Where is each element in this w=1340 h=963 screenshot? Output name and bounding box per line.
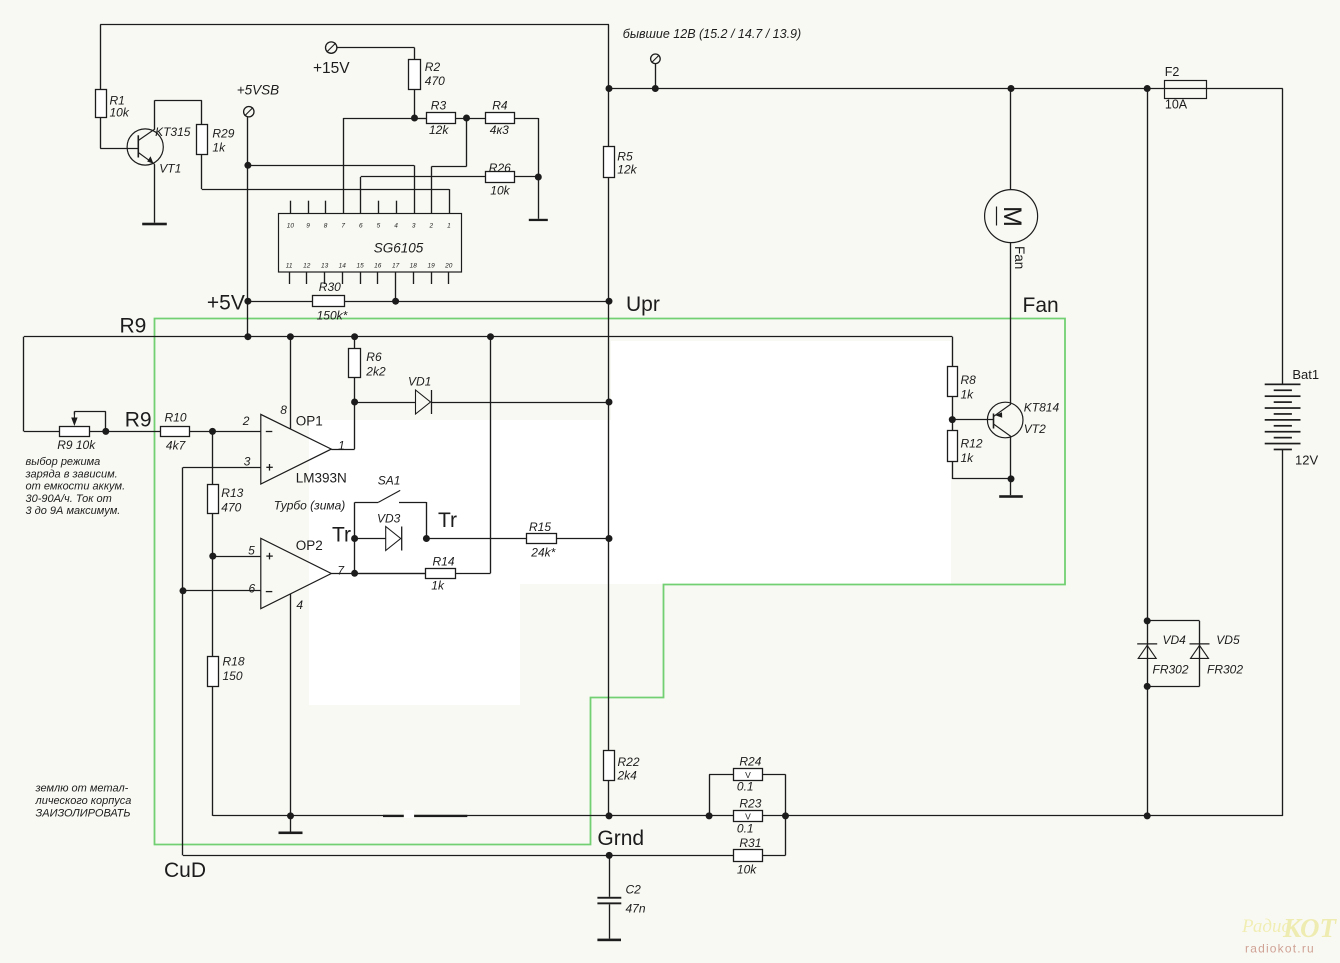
wire +5V rail right bbox=[345, 301, 610, 303]
node OP2 out junction bbox=[351, 570, 358, 577]
svg-text:VD1: VD1 bbox=[408, 375, 431, 389]
svg-text:10k: 10k bbox=[110, 106, 130, 120]
wire +15V to R2 bbox=[337, 48, 415, 60]
white patch below OP1 bbox=[309, 584, 520, 705]
wire C2 top lead bbox=[609, 855, 611, 896]
watermark radiokot bbox=[1241, 913, 1338, 956]
wire VT1 emitter bbox=[154, 165, 156, 223]
svg-text:14: 14 bbox=[339, 263, 347, 270]
ground C2 bbox=[597, 904, 621, 941]
node R15 Upr junction bbox=[606, 535, 613, 542]
label Fan vertical bbox=[1012, 246, 1027, 269]
svg-text:1: 1 bbox=[447, 223, 451, 230]
wire VD1 row left bbox=[355, 402, 416, 404]
svg-text:470: 470 bbox=[425, 74, 445, 88]
resistor R2 bbox=[409, 60, 421, 90]
svg-text:R29: R29 bbox=[212, 127, 234, 141]
node VD4 bottom junction bbox=[1144, 683, 1151, 690]
svg-text:12V: 12V bbox=[1295, 453, 1318, 468]
label R12 bbox=[961, 437, 983, 466]
svg-text:от емкости аккум.: от емкости аккум. bbox=[26, 481, 126, 493]
wire pot to R10 bbox=[89, 431, 160, 433]
terminal former 12V bbox=[651, 54, 661, 64]
label Fan bbox=[1023, 294, 1059, 317]
label Turbo bbox=[274, 499, 346, 513]
label pin3 bbox=[244, 454, 251, 468]
node ground R22 bbox=[606, 812, 613, 819]
IC top pin numbers bbox=[287, 223, 451, 230]
label CuD bbox=[164, 859, 206, 882]
node +5VSB junction bbox=[244, 162, 251, 169]
wire rail5 row bbox=[24, 336, 952, 338]
wire OP2 out bbox=[331, 573, 425, 575]
wire +5VSB down bbox=[247, 117, 249, 165]
node VT2 base junction bbox=[949, 416, 956, 423]
label R2 bbox=[425, 60, 445, 88]
node rail5 R14 bbox=[487, 333, 494, 340]
svg-text:KT814: KT814 bbox=[1024, 401, 1060, 415]
svg-text:Grnd: Grnd bbox=[597, 827, 644, 850]
svg-text:+15V: +15V bbox=[313, 60, 350, 77]
label pin6 bbox=[249, 581, 256, 595]
wire +5VSB to +5V rail bbox=[247, 165, 249, 336]
label R22 bbox=[617, 755, 640, 783]
svg-text:FR302: FR302 bbox=[1207, 663, 1243, 677]
wire R18 bottom lead bbox=[212, 686, 214, 816]
wire OP2 minus bbox=[183, 590, 261, 592]
wire R3-R4 bbox=[455, 118, 485, 120]
white patch right of OP1 bbox=[309, 420, 611, 584]
node rail5 pin8 bbox=[287, 333, 294, 340]
svg-text:F2: F2 bbox=[1165, 65, 1180, 79]
label former 12V bbox=[623, 27, 801, 41]
svg-text:9: 9 bbox=[306, 223, 310, 230]
svg-text:4: 4 bbox=[296, 598, 303, 612]
svg-text:+5V: +5V bbox=[207, 292, 245, 315]
wire main 12V rail bbox=[609, 88, 1165, 90]
svg-text:0.1: 0.1 bbox=[737, 780, 754, 794]
resistor R30 bbox=[313, 296, 345, 307]
wire Upr rail top bbox=[608, 25, 610, 147]
svg-text:12k: 12k bbox=[429, 123, 449, 137]
node +5V junction bbox=[244, 298, 251, 305]
svg-text:5: 5 bbox=[377, 223, 381, 230]
resistor R15 bbox=[527, 534, 557, 544]
svg-text:15: 15 bbox=[356, 263, 364, 270]
label 12V bbox=[1295, 453, 1318, 468]
label pin4 bbox=[296, 598, 303, 612]
node ground pin4 bbox=[287, 812, 294, 819]
svg-text:VT2: VT2 bbox=[1024, 422, 1046, 436]
svg-text:выбор режима: выбор режима bbox=[26, 456, 101, 468]
svg-text:150k*: 150k* bbox=[317, 309, 348, 323]
label Bat1 bbox=[1292, 367, 1319, 382]
wire R10 to OP1 bbox=[190, 431, 261, 433]
diode VD3 bbox=[386, 527, 402, 551]
svg-text:R14: R14 bbox=[433, 555, 455, 569]
wire OP1 plus bbox=[183, 467, 261, 469]
diode VD4 bbox=[1137, 644, 1157, 659]
wire pin4 drop bbox=[290, 594, 292, 816]
node pin17 junction bbox=[392, 298, 399, 305]
svg-text:1: 1 bbox=[338, 438, 345, 452]
wire R29 to pin1 bbox=[202, 155, 450, 214]
svg-text:R22: R22 bbox=[618, 755, 640, 769]
svg-text:2k2: 2k2 bbox=[365, 365, 386, 379]
svg-text:3: 3 bbox=[244, 454, 251, 468]
node ground R24 left bbox=[706, 812, 713, 819]
svg-text:4k7: 4k7 bbox=[166, 439, 187, 453]
svg-text:R23: R23 bbox=[739, 797, 761, 811]
resistor R26 bbox=[486, 172, 515, 183]
svg-text:КОТ: КОТ bbox=[1282, 913, 1338, 943]
node ground F2 rail bbox=[1144, 812, 1151, 819]
wire R3 left to pin7 bbox=[343, 118, 414, 214]
wire F2 rail lower bbox=[1147, 686, 1149, 816]
resistor R14 bbox=[426, 569, 456, 579]
svg-text:R26: R26 bbox=[489, 161, 511, 175]
label R4 bbox=[490, 99, 509, 138]
svg-text:8: 8 bbox=[280, 403, 287, 417]
label Grnd bbox=[597, 827, 644, 850]
wire CuD line bbox=[183, 855, 733, 857]
wire Upr rail mid bbox=[608, 301, 610, 538]
svg-text:20: 20 bbox=[444, 263, 453, 270]
label VD4 bbox=[1163, 633, 1187, 647]
ground VT2 bbox=[999, 479, 1023, 498]
svg-text:radiokot.ru: radiokot.ru bbox=[1245, 942, 1315, 956]
label Tr left bbox=[332, 524, 351, 547]
wire R13 top lead bbox=[212, 431, 214, 485]
wire R3 left lead bbox=[415, 118, 427, 120]
svg-text:R24: R24 bbox=[739, 755, 761, 769]
label OP2 bbox=[296, 538, 323, 553]
node VT2 emitter junction bbox=[1008, 475, 1015, 482]
node Tr junction bbox=[351, 535, 358, 542]
svg-text:SA1: SA1 bbox=[378, 473, 401, 487]
wire fan bottom bbox=[1010, 243, 1012, 404]
node VD3 cathode junction bbox=[423, 535, 430, 542]
wire OP2out to R14 bbox=[355, 573, 426, 575]
wire VD4 branch bbox=[1147, 621, 1149, 687]
label pin2 bbox=[242, 414, 250, 428]
svg-text:12: 12 bbox=[303, 263, 311, 270]
node rail5 R6 bbox=[351, 333, 358, 340]
node ground R23 right bbox=[782, 812, 789, 819]
resistor R18 bbox=[208, 657, 219, 687]
svg-text:VT1: VT1 bbox=[159, 162, 181, 176]
svg-text:10k: 10k bbox=[737, 863, 757, 877]
label FR302 right bbox=[1207, 663, 1243, 677]
wire F2 rail upper bbox=[1147, 89, 1149, 621]
potentiometer R9 bbox=[60, 411, 106, 436]
wire ground rail bbox=[213, 815, 1283, 817]
svg-text:R10: R10 bbox=[165, 411, 187, 425]
wire VT2 base bbox=[952, 419, 994, 421]
label R9 big top bbox=[120, 315, 147, 338]
wire R26 left to pin6 bbox=[361, 177, 486, 214]
node VD1 Upr junction bbox=[606, 399, 613, 406]
label R26 bbox=[489, 161, 511, 198]
svg-text:4к3: 4к3 bbox=[490, 123, 509, 137]
svg-text:10: 10 bbox=[287, 223, 295, 230]
node terminal junction bbox=[652, 85, 659, 92]
ground R26 bbox=[529, 177, 548, 221]
wire minus bus bbox=[182, 467, 184, 855]
resistor R24 bbox=[734, 769, 763, 781]
label R13 bbox=[221, 486, 243, 515]
svg-text:R6: R6 bbox=[366, 350, 382, 364]
ground rail thick segment bbox=[383, 810, 467, 818]
svg-text:R13: R13 bbox=[221, 486, 243, 500]
label VD1 bbox=[408, 375, 431, 389]
resistor R3 bbox=[427, 113, 456, 124]
svg-text:Bat1: Bat1 bbox=[1292, 367, 1319, 382]
wire VD3 left bbox=[355, 538, 386, 540]
label FR302 left bbox=[1153, 663, 1189, 677]
wire R14 right riser bbox=[456, 337, 491, 574]
svg-text:V: V bbox=[745, 812, 751, 822]
svg-text:1k: 1k bbox=[961, 451, 975, 465]
svg-text:VD3: VD3 bbox=[377, 512, 401, 526]
svg-text:бывшие 12В (15.2 / 14.7 / 13.9: бывшие 12В (15.2 / 14.7 / 13.9) bbox=[623, 27, 801, 41]
fan motor M1 bbox=[985, 190, 1038, 243]
wire R12 top bbox=[952, 420, 954, 431]
node R3/R4 junction bbox=[463, 115, 470, 122]
resistor R1 bbox=[96, 90, 107, 118]
svg-text:3 до 9А максимум.: 3 до 9А максимум. bbox=[26, 505, 121, 517]
resistor R10 bbox=[161, 427, 190, 437]
svg-text:R30: R30 bbox=[319, 280, 341, 294]
svg-text:M: M bbox=[998, 206, 1026, 227]
svg-text:SG6105: SG6105 bbox=[374, 241, 424, 256]
diode VD1 bbox=[416, 390, 432, 414]
svg-text:2k4: 2k4 bbox=[617, 769, 638, 783]
wire fan top bbox=[1010, 89, 1012, 190]
IC U1 SG6105 body bbox=[279, 214, 462, 273]
node C2 junction bbox=[606, 852, 613, 859]
svg-text:R9 10k: R9 10k bbox=[57, 438, 96, 452]
label +5VSB bbox=[237, 83, 279, 98]
label R18 bbox=[223, 655, 245, 684]
svg-text:землю от метал-: землю от метал- bbox=[35, 783, 129, 795]
svg-text:10k: 10k bbox=[490, 184, 510, 198]
wire Upr rail low bbox=[608, 539, 610, 752]
wire R31 right riser bbox=[763, 816, 786, 856]
label R5 bbox=[617, 150, 637, 177]
wire +5VSB to pin3 bbox=[248, 165, 415, 213]
wire right rail bottom bbox=[1282, 450, 1284, 816]
svg-text:C2: C2 bbox=[626, 883, 642, 897]
wire Tr riser bbox=[354, 539, 356, 574]
label KT315 bbox=[155, 125, 191, 139]
wire pin2 riser bbox=[432, 118, 467, 214]
wire OP2 plus bbox=[213, 556, 261, 558]
wire R8 bottom bbox=[952, 397, 954, 420]
wire R6 bottom lead bbox=[354, 378, 356, 403]
transistor VT2 KT814 bbox=[987, 402, 1023, 438]
svg-text:V: V bbox=[745, 770, 751, 780]
wire fuse to right rail bbox=[1207, 88, 1283, 90]
resistor R13 bbox=[208, 485, 219, 514]
svg-text:1k: 1k bbox=[961, 388, 975, 402]
label R14 bbox=[431, 555, 455, 593]
svg-text:R2: R2 bbox=[425, 60, 441, 74]
wire VT2 emitter down bbox=[1010, 437, 1012, 479]
wire Upr rail bbox=[608, 177, 610, 301]
wire R29 top lead bbox=[201, 100, 203, 124]
label Upr bbox=[626, 293, 660, 316]
node Upr top junction bbox=[606, 85, 613, 92]
resistor R22 bbox=[604, 751, 615, 781]
svg-text:47n: 47n bbox=[626, 902, 646, 916]
resistor R8 bbox=[948, 367, 958, 397]
svg-text:1k: 1k bbox=[212, 141, 226, 155]
label C2 bbox=[626, 883, 646, 916]
resistor R23 bbox=[734, 811, 763, 822]
resistor R31 bbox=[734, 850, 763, 862]
svg-text:R3: R3 bbox=[431, 99, 447, 113]
label LM393N bbox=[296, 471, 347, 486]
wire R12 bottom bbox=[952, 461, 1011, 479]
svg-text:+5VSB: +5VSB bbox=[237, 83, 279, 98]
wire terminal stub bbox=[655, 64, 657, 89]
svg-text:11: 11 bbox=[286, 263, 293, 270]
svg-text:лического корпуса: лического корпуса bbox=[35, 795, 132, 807]
svg-text:6: 6 bbox=[249, 581, 256, 595]
svg-text:R12: R12 bbox=[961, 437, 983, 451]
fuse F2 bbox=[1165, 81, 1207, 99]
wire R18 top lead bbox=[212, 556, 214, 656]
op-amp OP2 bbox=[261, 538, 332, 608]
svg-text:OP2: OP2 bbox=[296, 538, 323, 553]
svg-text:0.1: 0.1 bbox=[737, 822, 754, 836]
label SA1 bbox=[378, 473, 401, 487]
label R9 10k bbox=[57, 438, 96, 452]
svg-text:470: 470 bbox=[221, 501, 241, 515]
svg-text:30-90А/ч. Ток от: 30-90А/ч. Ток от bbox=[26, 493, 112, 505]
svg-text:LM393N: LM393N bbox=[296, 471, 347, 486]
svg-text:19: 19 bbox=[427, 263, 435, 270]
wire VT1 collector bbox=[155, 100, 202, 129]
annotation charge mode bbox=[25, 456, 126, 517]
svg-text:FR302: FR302 bbox=[1153, 663, 1189, 677]
wire +5V rail left bbox=[248, 301, 313, 303]
ground VT1 bbox=[142, 223, 167, 226]
svg-text:KT315: KT315 bbox=[155, 125, 191, 139]
wire R24 loop bbox=[709, 774, 785, 816]
node fan junction bbox=[1008, 85, 1015, 92]
resistor R4 bbox=[486, 113, 515, 124]
resistor R5 bbox=[604, 147, 615, 178]
svg-text:R4: R4 bbox=[492, 99, 508, 113]
svg-text:4: 4 bbox=[394, 223, 398, 230]
wire R4 right bbox=[515, 118, 539, 177]
svg-text:Fan: Fan bbox=[1012, 246, 1027, 269]
resistor R6 bbox=[349, 349, 361, 378]
wire OP1 out bbox=[331, 402, 354, 450]
wire R1 top lead bbox=[100, 25, 102, 90]
node R10 junction bbox=[209, 428, 216, 435]
node Upr junction +5V bbox=[606, 298, 613, 305]
label Tr right bbox=[438, 509, 457, 532]
svg-text:R15: R15 bbox=[529, 520, 551, 534]
label R10 bbox=[165, 411, 187, 453]
wire top rail bbox=[100, 24, 609, 26]
svg-text:Fan: Fan bbox=[1023, 294, 1059, 317]
node VD1 anode junction bbox=[351, 399, 358, 406]
label R3 bbox=[429, 99, 449, 137]
op-amp OP1 bbox=[261, 414, 332, 484]
svg-text:13: 13 bbox=[321, 263, 329, 270]
svg-text:7: 7 bbox=[341, 223, 345, 230]
wire R22 bottom bbox=[608, 781, 610, 816]
label VT1 bbox=[159, 162, 181, 176]
label +15V bbox=[313, 60, 350, 77]
svg-text:OP1: OP1 bbox=[296, 414, 323, 429]
svg-text:17: 17 bbox=[392, 263, 400, 270]
svg-text:Tr: Tr bbox=[438, 509, 457, 532]
svg-text:5: 5 bbox=[248, 544, 255, 558]
svg-text:Upr: Upr bbox=[626, 293, 660, 316]
wire VD1 row right bbox=[432, 402, 610, 404]
capacitor C2 bbox=[597, 897, 621, 905]
svg-text:R18: R18 bbox=[223, 655, 245, 669]
node rail5 +5VSB bbox=[244, 333, 251, 340]
label pin1 bbox=[338, 438, 345, 452]
wire right rail top bbox=[1282, 89, 1284, 385]
label F2 bbox=[1165, 65, 1188, 112]
svg-text:R9: R9 bbox=[120, 315, 147, 338]
svg-text:R9: R9 bbox=[125, 409, 152, 432]
label R9 big mid bbox=[125, 409, 152, 432]
svg-text:CuD: CuD bbox=[164, 859, 206, 882]
label R30 bbox=[317, 280, 348, 323]
ground symbol pin4 bbox=[279, 816, 303, 834]
svg-text:8: 8 bbox=[324, 223, 328, 230]
svg-text:ЗАИЗОЛИРОВАТЬ: ЗАИЗОЛИРОВАТЬ bbox=[36, 808, 131, 820]
node R26 junction bbox=[535, 174, 542, 181]
wire R15 right bbox=[556, 538, 609, 540]
node OP2 plus junction bbox=[209, 553, 216, 560]
node VD4 top junction bbox=[1144, 617, 1151, 624]
svg-text:10A: 10A bbox=[1165, 98, 1188, 112]
svg-text:150: 150 bbox=[223, 669, 243, 683]
label VT2 bbox=[1024, 422, 1046, 436]
white patch above green step bbox=[611, 341, 951, 584]
diode VD5 bbox=[1190, 644, 1210, 659]
label R24 bbox=[737, 755, 762, 794]
svg-text:16: 16 bbox=[374, 263, 382, 270]
label VD5 bbox=[1216, 633, 1240, 647]
battery Bat1 bbox=[1265, 384, 1301, 451]
wire left drop bbox=[23, 337, 25, 432]
resistor R12 bbox=[948, 431, 958, 462]
svg-text:Tr: Tr bbox=[332, 524, 351, 547]
terminal +15V bbox=[326, 42, 337, 53]
IC bottom pin stubs bbox=[290, 272, 449, 284]
IC top pin stubs bbox=[291, 201, 397, 214]
svg-text:2: 2 bbox=[242, 414, 250, 428]
wire rail5 to R8 bbox=[952, 337, 954, 367]
label R6 bbox=[365, 350, 386, 379]
svg-text:Турбо (зима): Турбо (зима) bbox=[274, 499, 346, 513]
node R2/R3 junction bbox=[411, 115, 418, 122]
label pin5 bbox=[248, 544, 255, 558]
label +5V bbox=[207, 292, 245, 315]
label OP1 bbox=[296, 414, 323, 429]
svg-text:12k: 12k bbox=[617, 163, 637, 177]
